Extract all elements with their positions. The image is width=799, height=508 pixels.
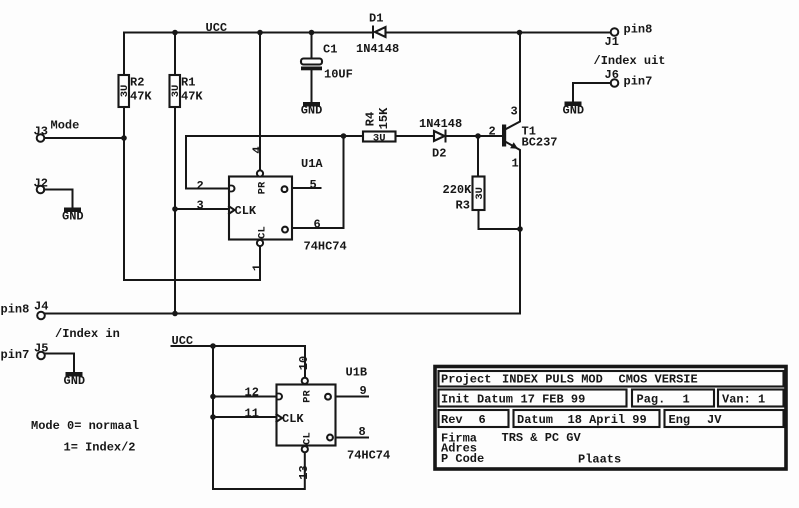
node R1 top junction [172,30,178,36]
wire PR pin4 branch [259,33,261,171]
title block van cell [718,390,784,407]
wire pin 9 stub [336,396,369,398]
svg-text:Project: Project [441,373,491,387]
wire J6 to ground [573,83,611,102]
pin 2 base label [489,125,496,139]
svg-text:Datum: Datum [517,413,553,427]
title block rev cell [439,410,509,427]
node PR branch junction [257,30,263,36]
svg-text:1= Index/2: 1= Index/2 [64,441,136,455]
svg-text:GND: GND [62,210,84,224]
connector J3 Mode [34,119,80,142]
svg-text:Init Datum: Init Datum [441,393,513,407]
svg-text:8: 8 [359,425,366,439]
svg-text:CLK: CLK [235,204,257,218]
title block datum cell [514,410,660,427]
svg-text:Rev: Rev [441,413,463,427]
label Mode legend line 1 [31,419,139,433]
wire J5 to ground [45,354,75,373]
transistor T1 BC237 [502,33,558,314]
svg-text:18 April 99: 18 April 99 [568,413,647,427]
title block init datum cell [439,390,627,407]
wire J3 Mode to R2 branch [44,137,124,139]
connector J6 pin7 [605,68,653,89]
pin 6 label [314,218,321,232]
node CLK junction [172,206,178,212]
wire Q-bar pin6 to loop [292,136,344,228]
label /Index uit [594,54,666,68]
resistor R3 220K [443,136,487,213]
node Mode junction [121,135,127,141]
wire pin 12 [213,396,277,398]
wire pin 11 [213,416,277,418]
svg-text:GND: GND [64,374,86,388]
svg-text:pin7: pin7 [624,75,653,89]
svg-text:3: 3 [511,105,518,119]
wire D-input feedback loop [186,136,344,189]
svg-text:CLK: CLK [282,412,304,426]
svg-text:4: 4 [251,146,265,153]
title block firma adres pcode [441,431,621,467]
label Mode legend line 2 [64,441,136,455]
svg-text:13: 13 [297,465,311,479]
svg-text:Plaats: Plaats [578,453,621,467]
svg-text:1: 1 [251,264,265,271]
svg-text:3U: 3U [474,187,486,200]
svg-text:17 FEB 99: 17 FEB 99 [521,393,586,407]
wire R1 bottom to index-in rail [174,107,176,314]
node C1 branch junction [309,30,315,36]
svg-text:9: 9 [360,384,367,398]
svg-text:JV: JV [707,413,722,427]
resistor R4 15K [344,107,396,144]
svg-text:74HC74: 74HC74 [304,240,347,254]
wire U1B left drop and CL return [213,346,305,489]
connector J5 pin7 [1,342,49,363]
node feedback junction [341,133,347,139]
pin 2 label [197,179,204,193]
diode D1 1N4148 [356,12,399,57]
svg-text:/Index uit: /Index uit [594,54,666,68]
svg-text:GND: GND [563,104,585,118]
svg-text:2: 2 [197,179,204,193]
svg-text:pin8: pin8 [624,23,653,37]
pin 10 label [297,356,311,370]
svg-text:Van: 1: Van: 1 [722,393,765,407]
pin 12 label [245,386,259,400]
svg-text:R4: R4 [363,112,377,126]
svg-text:CMOS VERSIE: CMOS VERSIE [619,373,698,387]
svg-text:15K: 15K [377,107,391,129]
svg-text:R2: R2 [130,76,144,90]
connector J4 pin8 [1,300,49,320]
ground at J6 [563,102,585,118]
node R1 on index rail [172,311,178,317]
svg-text:1N4148: 1N4148 [356,42,399,56]
capacitor C1 10UF [301,33,353,103]
svg-text:CL: CL [301,432,313,445]
node emitter junction [517,226,523,232]
svg-text:Mode 0= normaal: Mode 0= normaal [31,419,139,433]
pin 5 label [310,178,317,192]
wire /Index in rail [44,313,520,315]
svg-text:CL: CL [257,226,269,239]
ground at J2 [62,208,84,224]
wire J2 to ground [44,190,72,208]
svg-text:74HC74: 74HC74 [347,449,390,463]
svg-text:220K: 220K [443,183,473,197]
title block pag cell [632,390,714,407]
svg-text:GND: GND [301,104,323,118]
wire VCC top rail [124,32,372,34]
wire R3 bottom to emitter [479,210,521,229]
svg-text:C1: C1 [323,43,337,57]
resistor R1 47K [170,33,204,108]
label VCC net [206,21,228,35]
svg-text:47K: 47K [181,90,203,104]
svg-text:U1B: U1B [346,366,368,380]
wire pin 8 stub [336,437,369,439]
node pin12 junction [210,394,216,400]
op-amp U1A 74HC74 flip-flop [229,157,347,254]
pin 4 label [251,146,265,153]
label /Index in [55,327,120,341]
pin 13 label [297,465,311,479]
pin 11 label [245,407,259,421]
svg-text:2: 2 [489,125,496,139]
svg-text:INDEX PULS MOD: INDEX PULS MOD [502,373,603,387]
ground at J5 [64,372,86,388]
node pin11 junction [210,414,216,420]
svg-text:R3: R3 [456,199,470,213]
svg-text:Eng: Eng [669,413,691,427]
diode D2 1N4148 [396,117,463,161]
node VCC branch junction [210,343,216,349]
pin 9 label [360,384,367,398]
svg-text:12: 12 [245,386,259,400]
svg-text:6: 6 [479,413,486,427]
wire R2 bottom to CL pin1 of U1A [124,107,260,280]
title block eng cell [665,410,784,427]
svg-text:11: 11 [245,407,259,421]
svg-text:5: 5 [310,178,317,192]
svg-text:pin7: pin7 [1,348,30,362]
node base junction [475,133,481,139]
svg-text:PR: PR [301,390,313,403]
svg-text:1: 1 [683,393,690,407]
svg-text:pin8: pin8 [1,303,30,317]
svg-text:D2: D2 [432,147,446,161]
label VCC net bottom [172,334,194,348]
pin 8 label [359,425,366,439]
svg-text:10: 10 [297,356,311,370]
wire VCC to U1B PR [172,346,306,377]
svg-text:47K: 47K [130,90,152,104]
ground at C1 [301,102,323,118]
title block outer frame [435,367,786,470]
connector J1 pin8 [605,23,653,50]
svg-text:Mode: Mode [51,119,80,133]
svg-text:1N4148: 1N4148 [419,117,462,131]
pin 1 label [251,264,265,271]
wire Q pin5 stub [292,187,321,189]
svg-text:3: 3 [197,199,204,213]
svg-text:Pag.: Pag. [637,393,666,407]
svg-text:J1: J1 [605,35,619,49]
svg-text:UCC: UCC [206,21,228,35]
resistor R2 47K [119,33,153,108]
wire D1 to pin8 [386,32,612,34]
svg-text:D1: D1 [369,12,383,26]
svg-text:3U: 3U [373,132,386,144]
connector J2 [34,177,48,194]
svg-text:PR: PR [257,181,269,194]
svg-text:BC237: BC237 [522,136,558,150]
svg-text:1: 1 [512,157,519,171]
svg-text:U1A: U1A [301,157,323,171]
svg-text:10UF: 10UF [324,68,353,82]
svg-text:6: 6 [314,218,321,232]
svg-text:R1: R1 [181,76,195,90]
svg-text:TRS & PC GV: TRS & PC GV [502,431,582,445]
svg-text:P Code: P Code [441,452,484,466]
wire CLK pin3 [175,208,229,210]
svg-text:/Index in: /Index in [55,327,120,341]
pin 3 label [197,199,204,213]
wire D2 to base [446,135,503,137]
title block project cell [439,371,784,387]
node collector junction on output wire [517,30,523,36]
op-amp U1B 74HC74 flip-flop [277,366,391,463]
